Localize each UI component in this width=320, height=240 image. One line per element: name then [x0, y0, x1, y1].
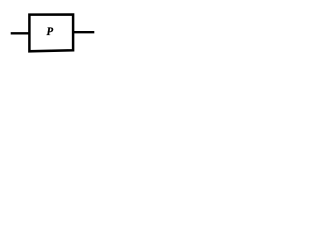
block P box [29, 15, 73, 52]
wire left input [11, 32, 30, 34]
wire right output [73, 31, 94, 33]
svg-text:P: P [47, 25, 54, 37]
